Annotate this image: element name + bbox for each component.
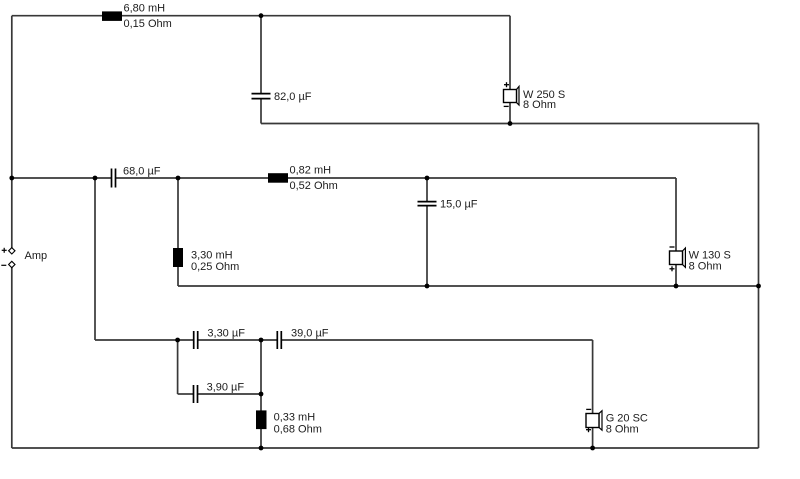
svg-text:3,90 µF: 3,90 µF [207, 382, 245, 394]
wire low rail left of C5 [95, 339, 193, 341]
capacitor C5 3,30 uF [194, 331, 198, 349]
capacitor C6 39,0 uF [277, 331, 281, 349]
wire left rail lower V2 [11, 267, 13, 448]
wire mid loop bottom H5 [178, 285, 759, 287]
svg-text:0,82 mH: 0,82 mH [290, 165, 332, 177]
wire low rail right of C6 [282, 339, 593, 341]
wire mid rail right of C2 [116, 177, 676, 179]
svg-text:82,0 µF: 82,0 µF [274, 91, 312, 103]
capacitor C1 82,0 uF [252, 94, 271, 99]
wire C3 branch lower [426, 206, 428, 286]
svg-text:39,0 µF: 39,0 µF [291, 328, 329, 340]
capacitor C3 15,0 uF [418, 202, 437, 206]
inductor L4 0,33 mH [256, 410, 267, 429]
wire right rail V8 [758, 124, 760, 449]
wire mid rail left of C2 [12, 177, 111, 179]
junction node W250S bottom [508, 121, 513, 126]
wire low parallel drop V10 [177, 340, 179, 394]
junction node parallel join [259, 392, 264, 397]
wire bottom rail H8 [12, 447, 759, 449]
junction node C3 top [425, 176, 430, 181]
junction node low split [175, 338, 180, 343]
wire low parallel right of C7 [198, 393, 261, 395]
junction node mid-left rail [9, 176, 14, 181]
junction node top [259, 13, 264, 18]
wire C3 branch upper [426, 178, 428, 201]
capacitor C7 3,90 uF [194, 385, 198, 403]
wire low rail between C5 C6 [198, 339, 277, 341]
wire top rail H1 [12, 15, 261, 17]
wire left rail upper V1 [11, 16, 13, 248]
junction node L4 bottom [259, 446, 264, 451]
inductor L2 0,82 mH [268, 173, 288, 183]
svg-text:0,33 mH: 0,33 mH [274, 412, 316, 424]
wire W130S branch V7 [675, 178, 677, 286]
svg-text:6,80 mH: 6,80 mH [124, 3, 166, 15]
junction node right rail mid [756, 284, 761, 289]
wire low feed V9 [94, 178, 96, 340]
wire top rail H2 [261, 15, 510, 17]
svg-text:15,0 µF: 15,0 µF [440, 199, 478, 211]
wire C1 branch upper [260, 16, 262, 93]
junction node W130S bottom [674, 284, 679, 289]
svg-text:0,25 Ohm: 0,25 Ohm [191, 261, 239, 273]
wire L3 branch V5 [177, 178, 179, 286]
svg-text:8 Ohm: 8 Ohm [523, 99, 556, 111]
svg-text:0,15 Ohm: 0,15 Ohm [124, 18, 172, 30]
svg-text:8 Ohm: 8 Ohm [606, 424, 639, 436]
junction node L3 top [176, 176, 181, 181]
svg-text:0,52 Ohm: 0,52 Ohm [290, 180, 338, 192]
inductor L1 6,80 mH [102, 11, 122, 21]
junction node low feed [93, 176, 98, 181]
junction node G20SC bottom [590, 446, 595, 451]
capacitor C2 68,0 uF [112, 169, 116, 188]
terminal diamond plus [9, 248, 15, 254]
terminal diamond minus [9, 261, 15, 267]
svg-text:68,0 µF: 68,0 µF [123, 166, 161, 178]
speaker SPK2 W 130 S [670, 247, 731, 272]
inductor L3 3,30 mH [173, 248, 183, 267]
svg-text:3,30 mH: 3,30 mH [191, 250, 233, 262]
speaker SPK1 W 250 S [504, 82, 566, 111]
svg-text:3,30 µF: 3,30 µF [207, 328, 245, 340]
junction node C3 bottom [425, 284, 430, 289]
junction node C6 left [259, 338, 264, 343]
wire W250S branch V4 [509, 16, 511, 124]
Amp terminals [1, 248, 47, 268]
speaker SPK3 G 20 SC [586, 409, 648, 435]
wire L4 branch V11 [260, 340, 262, 448]
wire low parallel left of C7 [178, 393, 193, 395]
wire C1 branch lower [260, 99, 262, 123]
wire top loop bottom H3 [261, 123, 759, 125]
svg-text:Amp: Amp [25, 250, 48, 262]
wire G20SC branch V12 [592, 340, 594, 448]
svg-text:0,68 Ohm: 0,68 Ohm [274, 424, 322, 436]
svg-text:8 Ohm: 8 Ohm [689, 260, 722, 272]
